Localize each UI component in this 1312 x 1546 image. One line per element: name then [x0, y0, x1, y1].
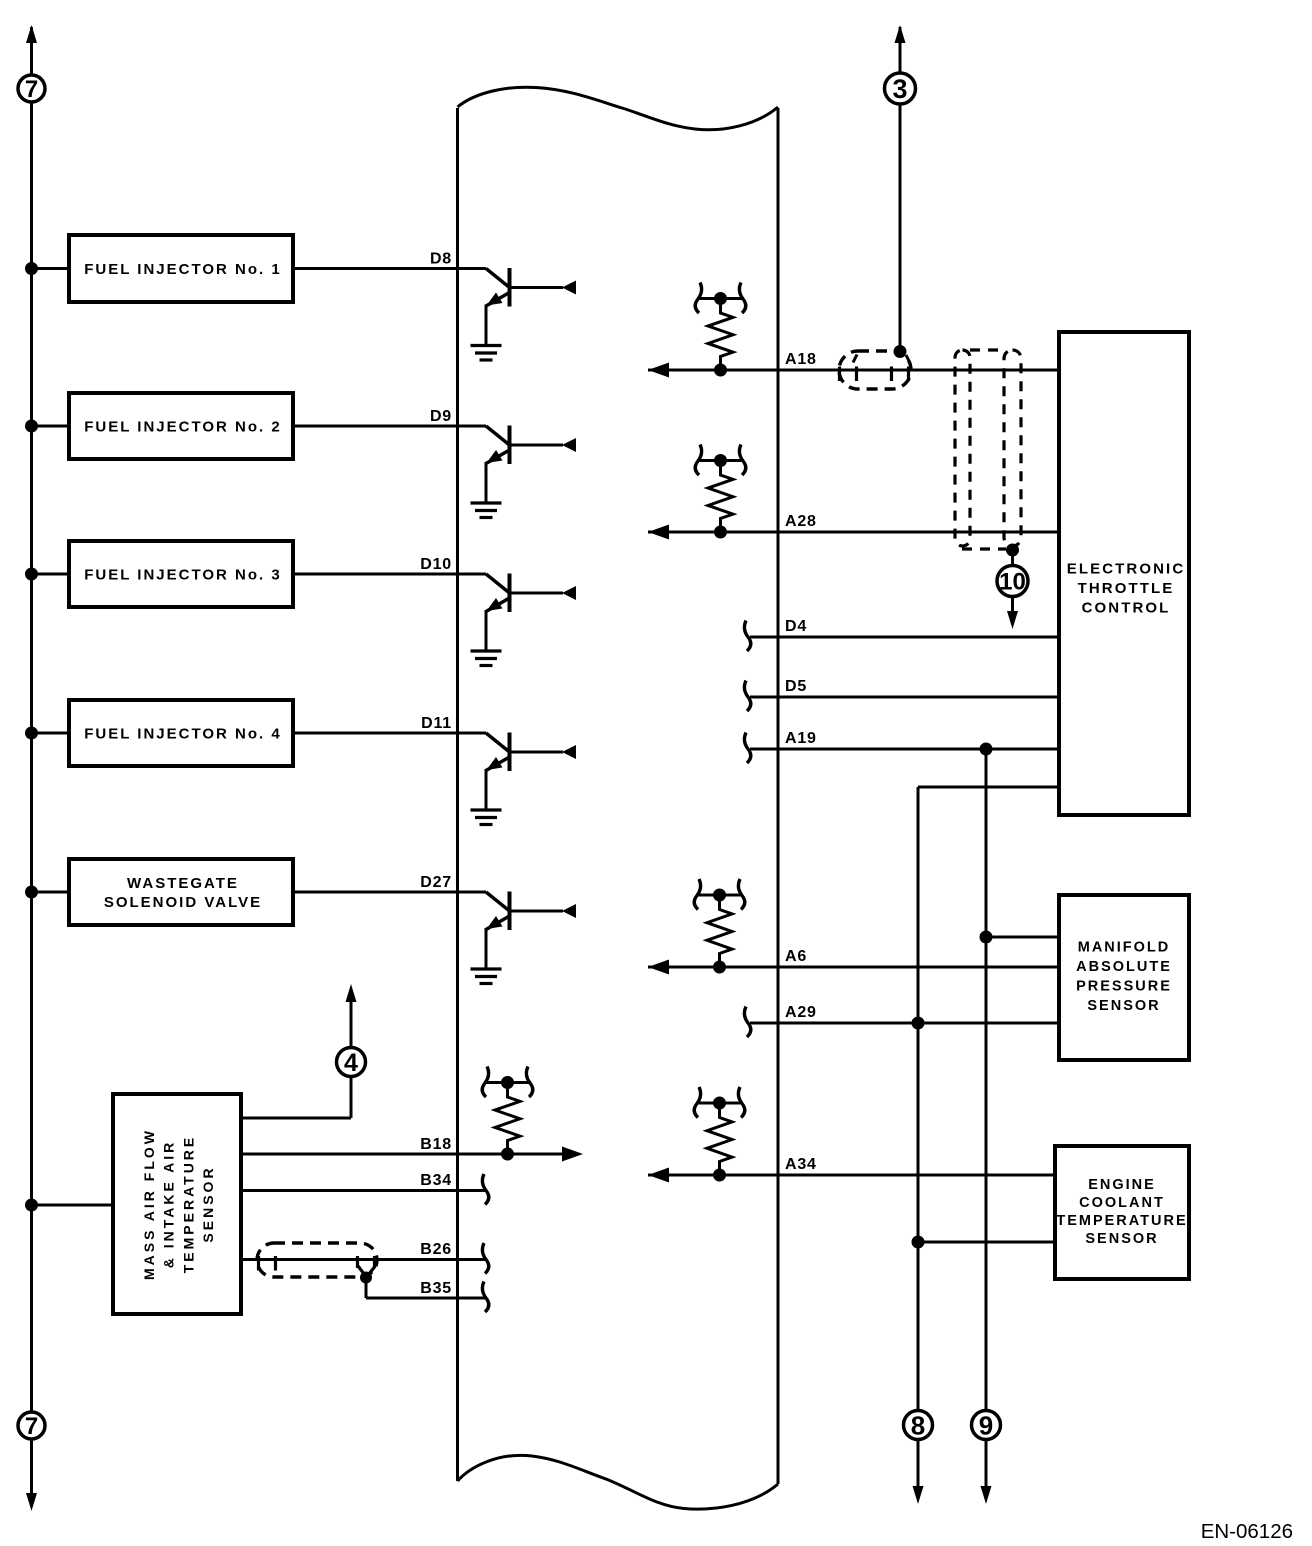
shield (dashed) around B26 wire	[257, 1243, 377, 1277]
fuel injector No.2 box	[69, 393, 293, 459]
svg-text:A29: A29	[785, 1004, 817, 1021]
transistor Q1	[458, 268, 577, 346]
svg-text:B35: B35	[420, 1280, 452, 1297]
wire from connector 3	[895, 25, 906, 350]
electronic throttle control box	[1059, 332, 1189, 815]
svg-text:A18: A18	[785, 351, 817, 368]
svg-text:A34: A34	[785, 1156, 817, 1173]
shield drain junction to connector 10	[1006, 544, 1019, 557]
fuel injector No.1 box	[69, 235, 293, 302]
node 7 supply rail (left vertical bus)	[26, 25, 37, 1511]
ground for Q4	[471, 810, 502, 825]
wire pin A19	[744, 730, 1059, 763]
wire pin A28	[648, 513, 1059, 540]
resistor R3 (A6 pull-up)	[694, 879, 745, 974]
connector ref 7 (bottom)	[18, 1412, 45, 1440]
mass air flow &amp; intake air temperature sensor box	[113, 1094, 241, 1314]
wire pin A6	[648, 948, 1059, 975]
wire pin B34	[241, 1172, 489, 1205]
shield (dashed tubes) around A18/A28 pair	[955, 350, 1021, 549]
svg-text:D9: D9	[430, 408, 452, 425]
ground for Q1	[471, 346, 502, 361]
junction A29 / ETC wire	[912, 1017, 925, 1030]
junction on rail to MAF sensor	[25, 1199, 113, 1212]
engine coolant temperature sensor box	[1055, 1146, 1189, 1279]
svg-text:THROTTLE: THROTTLE	[1078, 580, 1175, 597]
shield (dashed) around A18 wire	[839, 351, 911, 389]
ground for Q3	[471, 651, 502, 666]
wire A19 down to MAP sensor / connector 9	[985, 749, 988, 1411]
connector ref 4	[337, 1048, 366, 1078]
wire pin A29	[744, 1004, 1059, 1037]
svg-text:4: 4	[344, 1049, 358, 1077]
wire pin B35	[366, 1278, 489, 1312]
connector ref 9	[972, 1410, 1001, 1440]
wire pin D11	[293, 715, 458, 733]
wire pin B18	[241, 1136, 583, 1162]
resistor R5 (B18 pull-up)	[482, 1067, 533, 1161]
wire pin A18	[648, 351, 1059, 378]
resistor R4 (A34 pull-up)	[694, 1087, 745, 1182]
connector ref 7 (top)	[18, 75, 45, 103]
svg-text:7: 7	[25, 76, 38, 103]
svg-text:B34: B34	[420, 1172, 452, 1189]
svg-text:3: 3	[892, 74, 907, 104]
arrow from connector 4	[346, 984, 357, 1047]
junction ECT wire	[912, 1236, 925, 1249]
shield drain arrow to B35	[358, 1266, 375, 1284]
wire ETC lower pin	[918, 786, 1059, 789]
wire pin D9	[293, 408, 458, 426]
junction on rail y=268.5	[25, 262, 69, 275]
svg-text:CONTROL: CONTROL	[1082, 599, 1171, 616]
svg-text:FUEL INJECTOR No. 3: FUEL INJECTOR No. 3	[84, 566, 281, 583]
junction on rail y=426	[25, 420, 69, 433]
junction on A19	[980, 743, 993, 756]
wire pin B26	[241, 1241, 489, 1274]
svg-text:SENSOR: SENSOR	[200, 1165, 216, 1242]
resistor R2 (A28 pull-up)	[695, 445, 746, 539]
svg-text:9: 9	[979, 1410, 993, 1440]
ground for Q2	[471, 503, 502, 518]
svg-text:8: 8	[911, 1410, 925, 1440]
svg-text:10: 10	[999, 569, 1026, 596]
svg-text:A19: A19	[785, 730, 817, 747]
wastegate solenoid valve box	[69, 859, 293, 925]
svg-text:MASS AIR FLOW: MASS AIR FLOW	[141, 1128, 157, 1280]
svg-text:A28: A28	[785, 513, 817, 530]
svg-text:TEMPERATURE: TEMPERATURE	[180, 1135, 196, 1274]
wire pin A34	[648, 1156, 1055, 1183]
svg-text:SENSOR: SENSOR	[1087, 998, 1160, 1014]
svg-text:7: 7	[25, 1413, 38, 1440]
wire pin D5	[744, 678, 1059, 711]
wire to connector 10	[1011, 550, 1014, 566]
svg-text:D8: D8	[430, 251, 452, 268]
manifold absolute pressure sensor box	[1059, 895, 1189, 1060]
svg-text:WASTEGATE: WASTEGATE	[127, 875, 239, 892]
svg-text:ELECTRONIC: ELECTRONIC	[1067, 560, 1186, 577]
svg-text:EN-06126: EN-06126	[1201, 1520, 1293, 1543]
wire MAF to connector 4	[241, 1077, 351, 1118]
transistor Q4	[458, 733, 577, 811]
svg-text:ENGINE: ENGINE	[1088, 1177, 1156, 1193]
connector ref 8	[904, 1410, 933, 1440]
fuel injector No.3 box	[69, 541, 293, 607]
svg-text:FUEL INJECTOR No. 2: FUEL INJECTOR No. 2	[84, 418, 281, 435]
svg-text:ABSOLUTE: ABSOLUTE	[1076, 959, 1172, 975]
wire pin D8	[293, 251, 458, 269]
svg-text:& INTAKE AIR: & INTAKE AIR	[161, 1140, 177, 1269]
svg-text:D5: D5	[785, 678, 807, 695]
svg-text:PRESSURE: PRESSURE	[1076, 978, 1172, 994]
wire ECT lower pin	[918, 1241, 1055, 1244]
resistor R1 (A18 pull-up)	[695, 283, 746, 377]
wire pin D4	[744, 618, 1059, 651]
arrow from connector 9	[981, 1439, 992, 1504]
ECU block (torn-edge module outline)	[458, 87, 779, 1509]
transistor Q5	[458, 892, 577, 970]
transistor Q2	[458, 426, 577, 504]
arrow from connector 10	[1007, 596, 1018, 629]
junction on rail y=733	[25, 727, 69, 740]
shield drain junction on A18 shield	[894, 345, 907, 358]
svg-text:SOLENOID VALVE: SOLENOID VALVE	[104, 894, 262, 911]
connector ref 10	[997, 566, 1028, 597]
svg-text:FUEL INJECTOR No. 4: FUEL INJECTOR No. 4	[84, 725, 281, 742]
wire down from ETC pin to A29 / connector 8	[917, 787, 920, 1411]
svg-text:D10: D10	[420, 556, 452, 573]
svg-text:D11: D11	[421, 715, 452, 732]
svg-text:A6: A6	[785, 948, 807, 965]
fuel injector No.4 box	[69, 700, 293, 766]
wire pin D10	[293, 556, 458, 574]
svg-text:COOLANT: COOLANT	[1079, 1195, 1165, 1211]
figure number EN-06126	[1201, 1520, 1293, 1543]
svg-text:D27: D27	[420, 874, 452, 891]
ground for Q5	[471, 969, 502, 984]
svg-text:B26: B26	[420, 1241, 452, 1258]
wire pin D27	[293, 874, 458, 892]
svg-text:FUEL INJECTOR No. 1: FUEL INJECTOR No. 1	[84, 261, 281, 278]
svg-text:B18: B18	[420, 1136, 452, 1153]
svg-text:D4: D4	[785, 618, 807, 635]
svg-text:SENSOR: SENSOR	[1085, 1231, 1158, 1247]
junction on rail y=892	[25, 886, 69, 899]
transistor Q3	[458, 574, 577, 652]
junction on rail y=574	[25, 568, 69, 581]
arrow from connector 8	[913, 1439, 924, 1504]
junction to MAP sensor top port	[980, 931, 1060, 944]
svg-text:MANIFOLD: MANIFOLD	[1078, 939, 1171, 955]
connector ref 3	[885, 73, 916, 104]
svg-text:TEMPERATURE: TEMPERATURE	[1056, 1213, 1187, 1229]
